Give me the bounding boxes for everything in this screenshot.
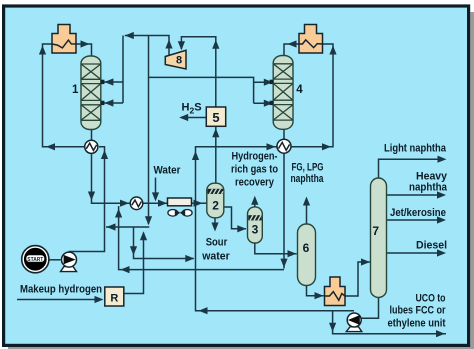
arrow up into effluent line — [115, 209, 122, 218]
arrow right into column 7 — [361, 258, 370, 265]
svg-text:recovery: recovery — [235, 176, 275, 188]
column 6 — [298, 224, 316, 286]
arrow up recycle oil riser — [192, 151, 199, 160]
column 7 — [371, 178, 387, 298]
svg-text:R: R — [110, 293, 118, 305]
svg-text:lubes FCC or: lubes FCC or — [390, 304, 447, 316]
wire feed riser: pump P1 discharge up to exchanger E1 — [69, 147, 105, 252]
arrow right into recycle riser — [185, 255, 194, 262]
separator 2 vessel — [207, 183, 224, 218]
arrow right into column 6 — [288, 250, 297, 257]
arrow right jet kerosine — [437, 216, 446, 223]
arrow right diesel — [437, 249, 446, 256]
drop shadow bottom — [8, 347, 474, 349]
wire reactor 1 effluent down through E1 to E2 — [92, 129, 131, 203]
arrow up below suction header — [212, 40, 219, 49]
arrow right into separator 2 — [194, 200, 203, 207]
wire furnace F2 outlet to reactor 4 top — [284, 44, 299, 55]
arrow up FG LPG — [303, 197, 310, 206]
wire separator 2 to separator 3 — [224, 207, 246, 229]
wire box 5 overhead to compressor 8 suction — [181, 37, 215, 107]
wire recycle oil riser to exchanger E4 — [196, 147, 355, 311]
wire hydrogen header y227 — [106, 226, 149, 228]
arrow left quench upper — [104, 78, 113, 85]
wire air cooler to separator 2 — [192, 202, 207, 204]
arrow right into air cooler — [158, 200, 167, 207]
arrow left into riser corner — [46, 143, 55, 150]
svg-text:7: 7 — [372, 224, 379, 238]
arrow right into exchanger E4 — [267, 143, 276, 150]
svg-text:Makeup hydrogen: Makeup hydrogen — [20, 284, 102, 296]
wire light naphtha product — [379, 159, 445, 178]
arrow right into separator 3 — [237, 225, 246, 232]
svg-text:6: 6 — [303, 241, 310, 255]
pump P2 — [346, 313, 362, 332]
svg-text:START: START — [27, 257, 43, 263]
pump P1 — [61, 252, 77, 272]
svg-text:3: 3 — [252, 222, 259, 236]
arrow down sour water — [211, 223, 218, 232]
wire water injection — [155, 178, 157, 199]
wire column 6 overhead — [306, 199, 308, 224]
arrow up on feed riser — [101, 150, 108, 159]
drop shadow right — [470, 12, 474, 349]
arrow down branch — [130, 246, 137, 255]
wire diesel product — [387, 252, 445, 254]
wire quench header to reactor 4 — [149, 77, 254, 103]
wire quench stub lower reactor 4 — [254, 102, 270, 104]
arrow up gas to recovery — [251, 196, 258, 205]
arrow right heavy naphtha — [437, 191, 446, 198]
wire UCO branch down — [333, 311, 446, 334]
separator 3 vessel — [248, 207, 263, 243]
svg-text:naphtha: naphtha — [409, 181, 448, 193]
arrow down UCO — [329, 323, 336, 332]
box 5 (H2S absorber) — [206, 107, 225, 126]
arrow down into compressor 8 — [178, 41, 185, 50]
wire separator 2 sour water — [214, 218, 216, 224]
arrow left furnace F2 outlet — [288, 40, 297, 47]
wire heavy naphtha product — [387, 194, 445, 196]
svg-text:rich gas to: rich gas to — [231, 164, 278, 176]
wire column 7 bottoms to pump P2 — [361, 298, 379, 319]
arrow left to quench drop — [125, 32, 134, 39]
svg-text:Sour: Sour — [206, 237, 228, 249]
wire exchanger E1 to furnace F1 — [43, 44, 85, 147]
wire separator 3 bottoms to column 6 — [255, 243, 297, 254]
wire column 6 bottoms to furnace F3 — [307, 286, 324, 296]
arrow down effluent 4 — [280, 259, 287, 268]
wire makeup hydrogen arrow — [17, 299, 100, 301]
R box — [105, 287, 124, 306]
arrow right into R box — [95, 296, 104, 303]
wire start to pump P1 — [49, 259, 61, 261]
svg-text:Hydrogen-: Hydrogen- — [232, 151, 278, 163]
wire combined effluent header y267 — [119, 206, 284, 270]
svg-text:naphtha: naphtha — [291, 173, 325, 185]
svg-text:2: 2 — [212, 198, 219, 212]
wire quench stub upper reactor 4 — [254, 81, 270, 83]
furnace F2 — [299, 25, 323, 54]
arrow right quench upper r4 — [264, 79, 273, 86]
arrow right UCO product — [436, 330, 445, 337]
wire quench stub upper reactor 1 — [104, 81, 123, 83]
arrow right quench lower r4 — [264, 100, 273, 107]
reactor 1 vessel — [81, 56, 104, 130]
furnace F1 — [52, 25, 76, 54]
wire furnace F1 outlet to reactor 1 top — [76, 44, 92, 56]
arrow down on effluent — [88, 192, 95, 201]
exchanger E4 — [277, 139, 291, 153]
arrow left on pump 2 discharge — [199, 307, 208, 314]
svg-text:FG, LPG: FG, LPG — [292, 162, 324, 174]
exchanger E2 — [130, 197, 143, 210]
svg-text:5: 5 — [212, 110, 219, 125]
arrow up into furnace F1 — [39, 46, 46, 55]
wire quench drop to reactor 1 — [122, 36, 124, 104]
arrow down water — [152, 192, 159, 201]
svg-text:1: 1 — [72, 84, 79, 96]
svg-text:UCO to: UCO to — [416, 292, 446, 304]
arrow right into furnace F3 — [315, 292, 324, 299]
arrow right to reactor 1 — [81, 40, 90, 47]
arrow right after E4 — [322, 143, 331, 150]
wire exchanger E2 to air cooler — [143, 202, 168, 204]
arrow up from compressor — [165, 40, 172, 49]
svg-text:4: 4 — [296, 84, 303, 96]
arrow left quench lower — [104, 99, 113, 106]
svg-text:Water: Water — [154, 164, 182, 176]
arrow left H2S — [179, 114, 188, 121]
air cooler — [168, 198, 193, 216]
arrow right light naphtha — [438, 156, 447, 163]
wire compressor 8 discharge header — [125, 36, 169, 57]
exchanger E1 — [85, 140, 98, 153]
svg-text:ethylene unit: ethylene unit — [388, 317, 446, 329]
wire hydrogen branch to second stage — [134, 227, 194, 259]
wire recycle gas drop — [148, 36, 150, 225]
wire separator 2 overhead riser to box 5 — [215, 126, 217, 183]
arrow left into feed riser — [107, 223, 116, 230]
arrow up into box 5 — [212, 128, 219, 137]
svg-text:Diesel: Diesel — [416, 240, 447, 252]
wire R box to hydrogen header — [124, 233, 144, 294]
wire reactor 4 effluent down — [283, 130, 285, 269]
compressor 8 — [165, 50, 186, 69]
arrow left header — [121, 266, 130, 273]
svg-text:8: 8 — [176, 54, 182, 66]
wire H2S outlet from box 5 — [181, 117, 206, 119]
arrow up makeup join — [140, 231, 147, 240]
wire separator 3 gas to recovery — [254, 198, 256, 207]
arrow down recycle gas — [145, 216, 152, 225]
arrow up into furnace F2 — [329, 46, 336, 55]
arrow right into exchanger E2 — [120, 200, 129, 207]
START button — [22, 246, 49, 273]
wire exchanger E4 to furnace F2 — [292, 44, 334, 147]
furnace F3 — [325, 277, 346, 306]
wire furnace F3 to column 7 — [345, 262, 370, 296]
wire quench stub lower reactor 1 — [104, 102, 123, 104]
reactor 4 vessel — [270, 56, 293, 130]
svg-text:Jet/kerosine: Jet/kerosine — [390, 207, 446, 219]
wire jet kerosine product — [387, 219, 445, 221]
svg-text:Light naphtha: Light naphtha — [384, 143, 447, 155]
svg-text:water: water — [201, 251, 230, 263]
